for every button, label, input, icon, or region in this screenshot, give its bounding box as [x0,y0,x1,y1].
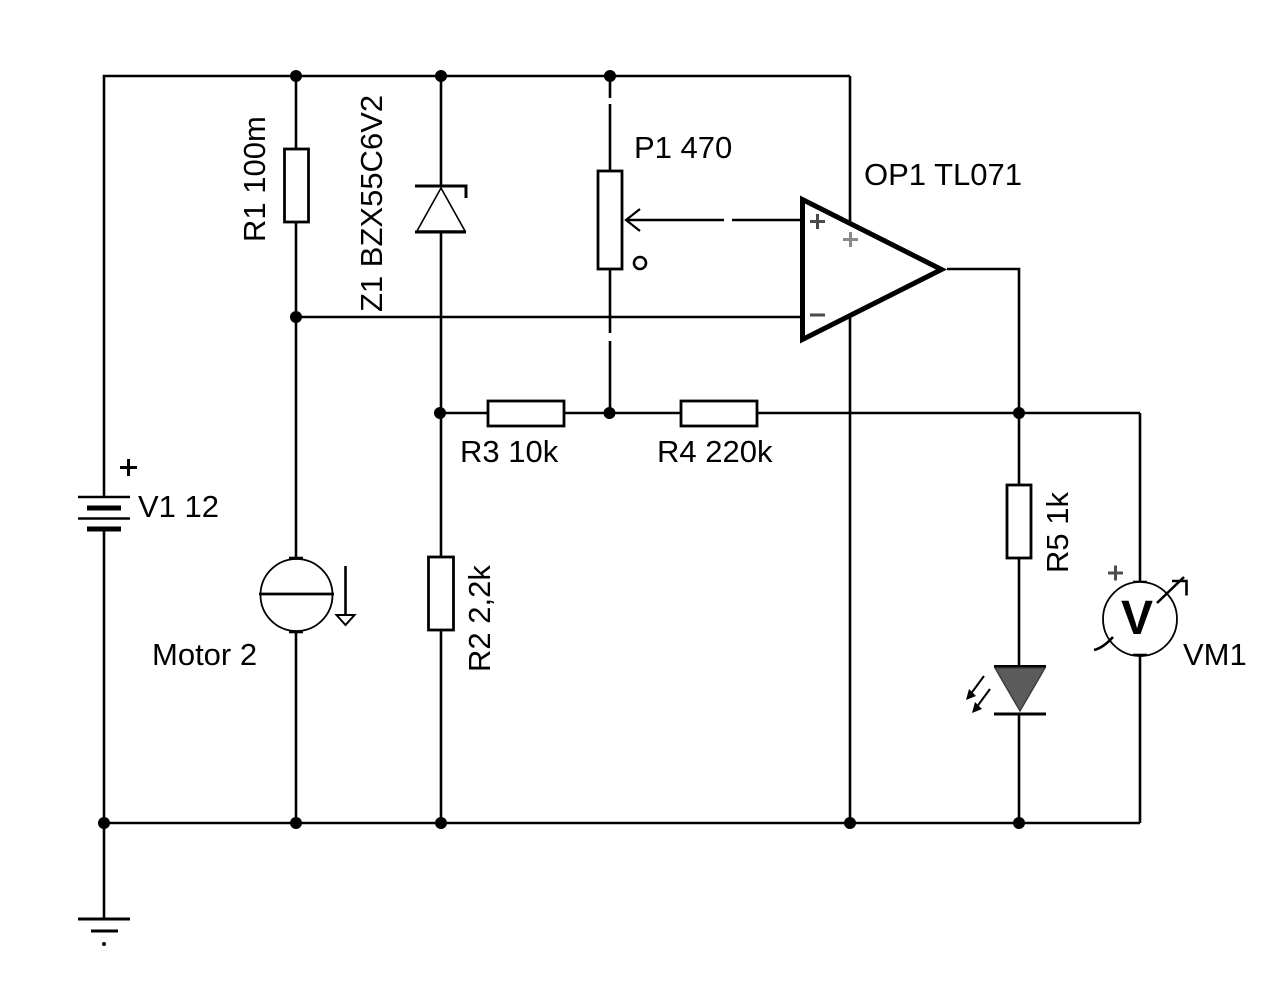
junction rail at motor [290,817,302,829]
svg-text:Z1 BZX55C6V2: Z1 BZX55C6V2 [354,95,389,312]
svg-text:P1 470: P1 470 [634,130,732,165]
resistor R1 [285,76,309,317]
svg-text:R3 10k: R3 10k [460,434,559,469]
junction rail at supply [844,817,856,829]
battery plus sign [120,459,137,476]
junction rail at ground [98,817,110,829]
wire left rail upper [103,75,106,497]
voltmeter needle arrow [1157,577,1187,603]
motor Motor 2 [259,317,334,823]
svg-text:VM1: VM1 [1183,637,1247,672]
wire bottom rail [103,822,1140,825]
wire left rail lower [103,529,106,823]
svg-text:R2 2,2k: R2 2,2k [462,565,497,672]
svg-text:OP1 TL071: OP1 TL071 [864,157,1022,192]
junction top rail at R1 [290,70,302,82]
junction R1 bottom [290,311,302,323]
svg-text:R1 100m: R1 100m [237,116,272,242]
svg-text:R4 220k: R4 220k [657,434,773,469]
potentiometer wiper arrow [626,209,800,231]
junction top rail at Z1 [435,70,447,82]
wire feedback row right [757,412,1140,415]
wire feedback row mid [564,412,681,415]
svg-text:R5 1k: R5 1k [1040,492,1075,573]
junction output [1013,407,1025,419]
junction feedback mid [604,407,616,419]
voltmeter VM1 [1103,413,1177,823]
resistor R5 [1007,413,1031,666]
svg-text:V: V [1121,592,1153,645]
op-amp power plus [843,232,858,247]
voltmeter arc tail [1094,637,1113,650]
wire top rail [103,75,850,78]
LED D1 [994,667,1046,824]
voltmeter plus [1108,566,1123,581]
zener diode Z1 [415,76,466,413]
potentiometer wiper terminal o [634,257,646,269]
op-amp minus [810,314,825,317]
motor direction arrow [337,566,355,625]
ground [78,919,130,946]
battery V1 [78,497,130,529]
wire ground stem [103,823,106,919]
junction rail at R2 [435,817,447,829]
LED light arrows [966,676,990,713]
wire op-amp supply column [849,76,852,823]
potentiometer P1 [598,76,622,413]
svg-text:Motor 2: Motor 2 [152,637,257,672]
junction rail at LED [1013,817,1025,829]
resistor R2 [429,413,454,823]
wire op-amp output [947,269,1019,413]
wire feedback row left [440,412,488,415]
op-amp OP1 [803,200,942,340]
wire inverting input row [296,316,801,319]
op-amp input plus [810,214,825,229]
resistor R3 [488,401,564,426]
resistor R4 [681,401,757,426]
svg-text:V1 12: V1 12 [138,489,219,524]
junction feedback left [434,407,446,419]
junction top rail at P1 [604,70,616,82]
